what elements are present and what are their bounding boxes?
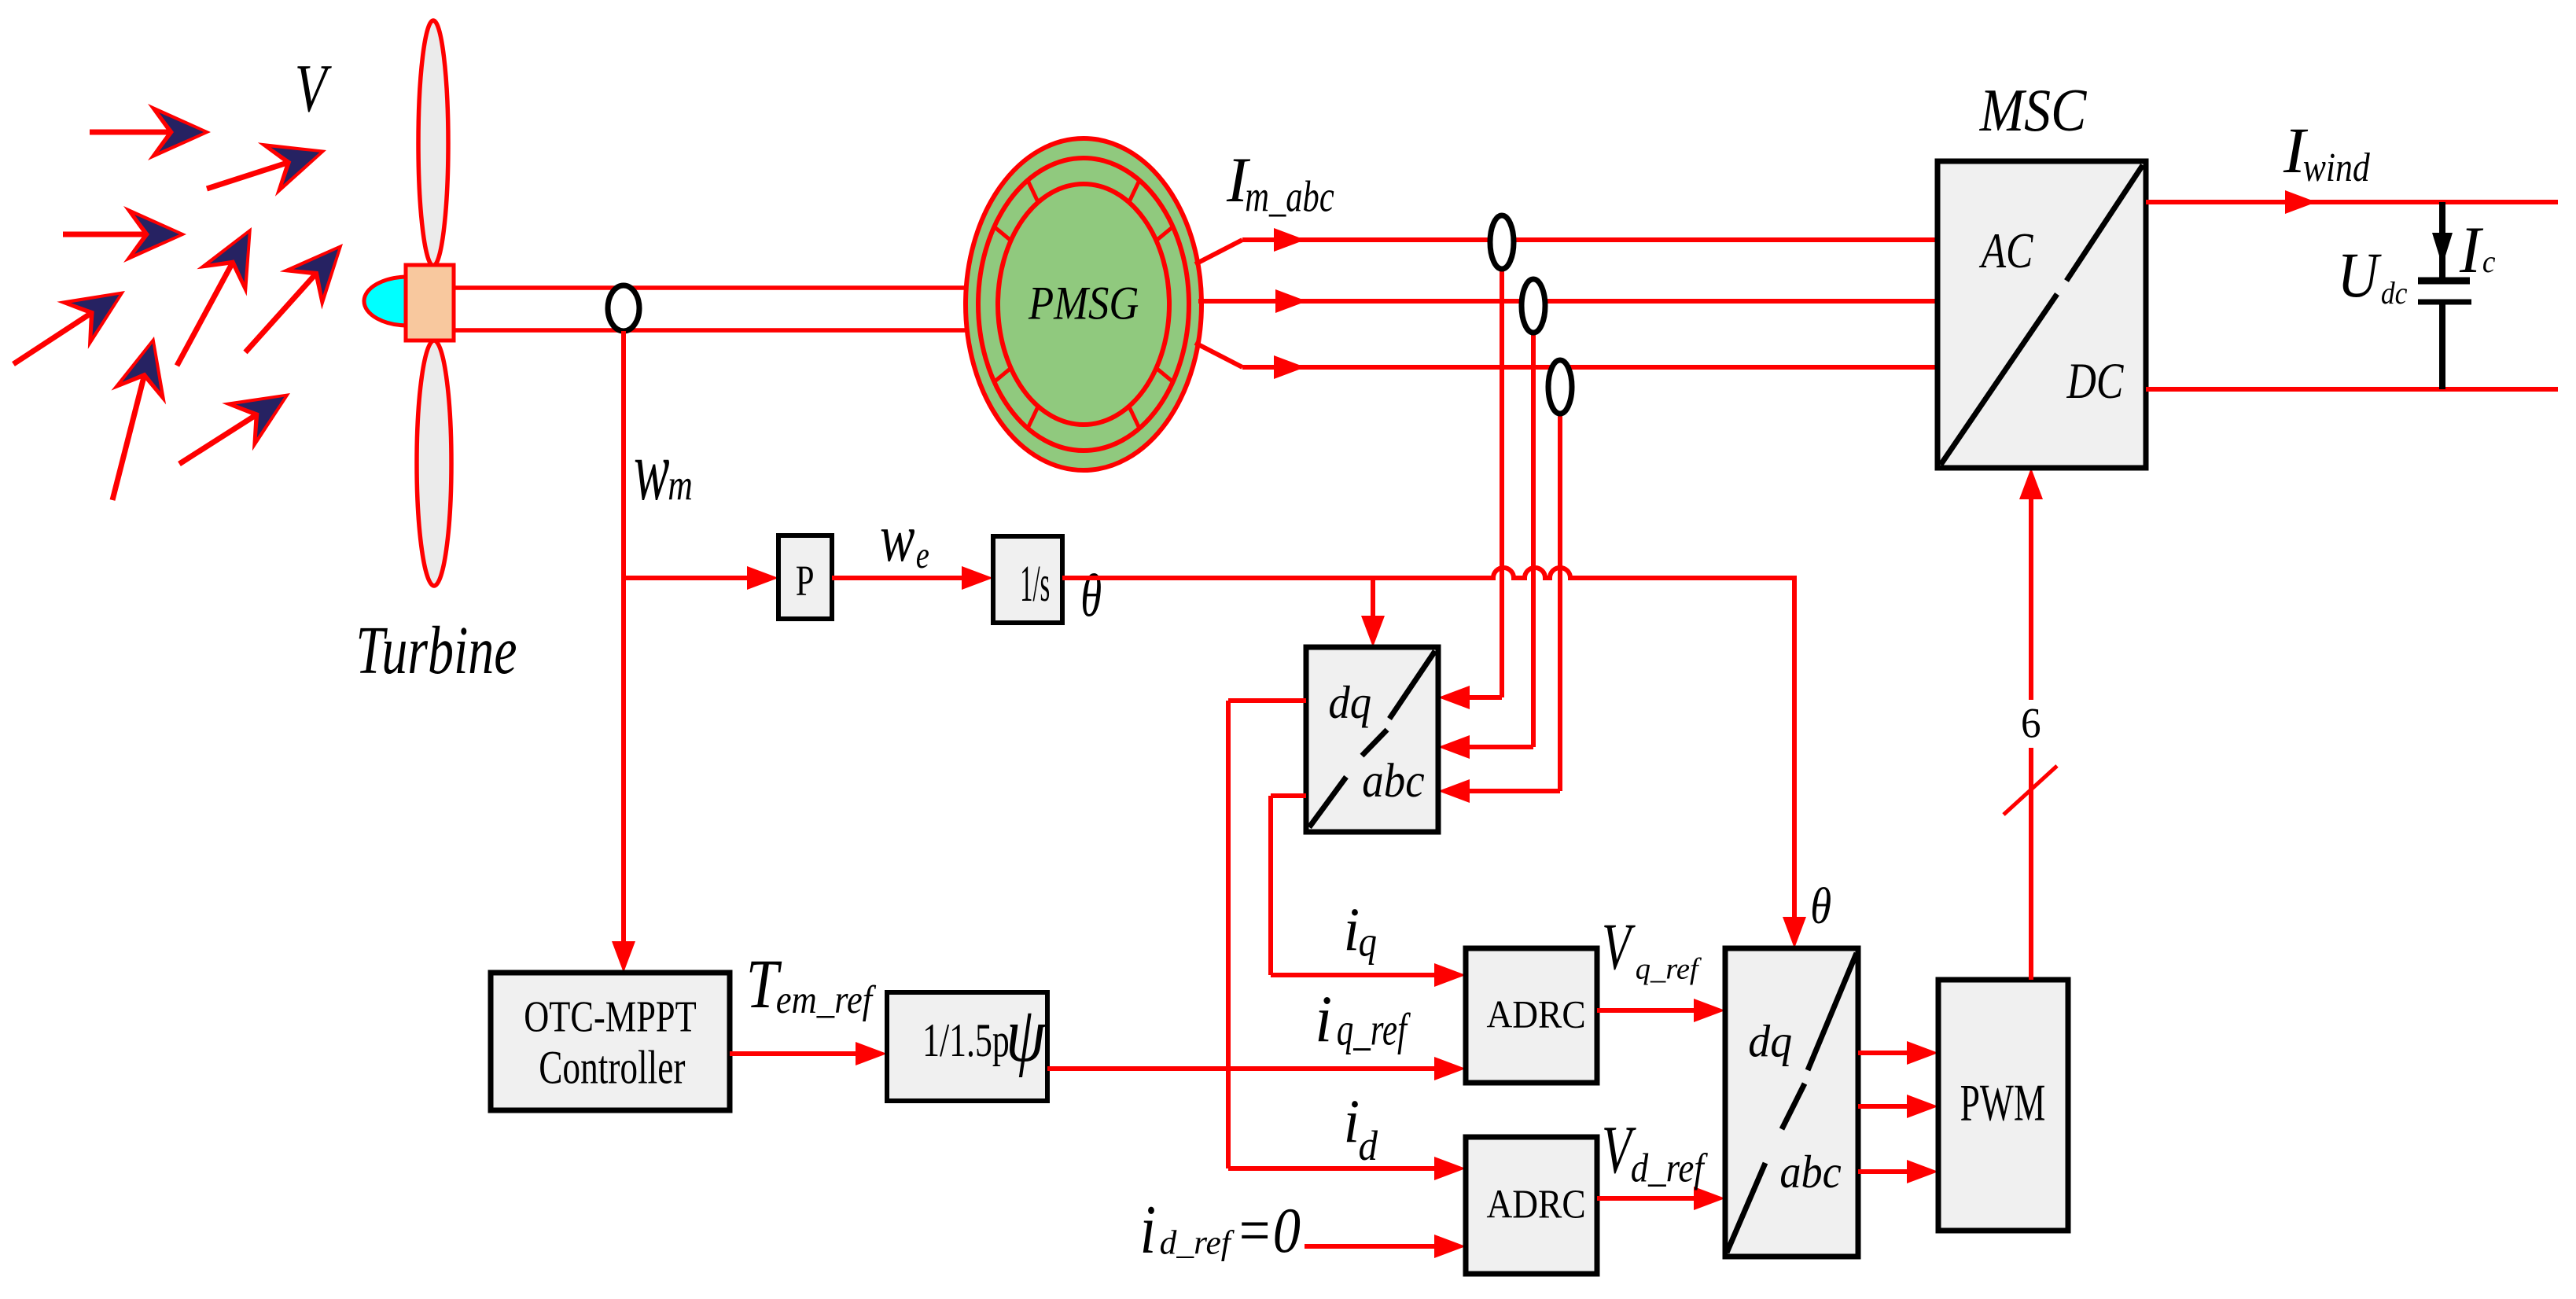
svg-text:i: i xyxy=(1315,983,1332,1056)
svg-text:dq: dq xyxy=(1328,676,1371,728)
svg-text:i: i xyxy=(1344,1087,1360,1155)
svg-text:I: I xyxy=(2459,214,2484,287)
svg-text:V: V xyxy=(295,50,333,126)
svg-text:d: d xyxy=(1359,1122,1378,1169)
svg-text:i: i xyxy=(1140,1191,1157,1268)
svg-text:d_ref: d_ref xyxy=(1160,1224,1235,1261)
svg-text:MSC: MSC xyxy=(1979,76,2088,144)
svg-text:e: e xyxy=(916,533,929,576)
svg-text:=0: =0 xyxy=(1235,1194,1301,1266)
svg-text:w: w xyxy=(880,499,915,576)
svg-text:wind: wind xyxy=(2303,145,2371,190)
svg-text:Controller: Controller xyxy=(539,1041,685,1093)
svg-text:Turbine: Turbine xyxy=(355,612,517,688)
svg-text:m_abc: m_abc xyxy=(1245,172,1334,221)
svg-text:dq: dq xyxy=(1748,1015,1792,1066)
svg-text:ADRC: ADRC xyxy=(1487,993,1586,1036)
svg-text:1/1.5p: 1/1.5p xyxy=(922,1014,1010,1067)
svg-text:i: i xyxy=(1344,895,1360,963)
svg-text:abc: abc xyxy=(1779,1146,1841,1198)
svg-text:AC: AC xyxy=(1978,223,2033,278)
svg-text:θ: θ xyxy=(1810,878,1831,935)
svg-text:dc: dc xyxy=(2381,275,2408,311)
svg-text:6: 6 xyxy=(2021,699,2041,747)
svg-text:em_ref: em_ref xyxy=(776,977,877,1021)
svg-text:w: w xyxy=(634,423,670,518)
svg-text:q_ref: q_ref xyxy=(1337,1003,1411,1054)
svg-text:m: m xyxy=(668,462,693,510)
svg-text:abc: abc xyxy=(1362,755,1424,808)
svg-text:U: U xyxy=(2338,239,2383,311)
svg-text:q_ref: q_ref xyxy=(1636,952,1702,985)
svg-text:OTC-MPPT: OTC-MPPT xyxy=(524,992,697,1041)
svg-text:d_ref: d_ref xyxy=(1631,1146,1709,1191)
svg-text:PWM: PWM xyxy=(1960,1074,2046,1132)
svg-text:ψ: ψ xyxy=(1006,991,1047,1078)
svg-text:1/s: 1/s xyxy=(1020,556,1050,613)
svg-text:q: q xyxy=(1359,918,1377,965)
svg-text:P: P xyxy=(796,557,815,605)
svg-text:θ: θ xyxy=(1080,561,1102,629)
svg-text:PMSG: PMSG xyxy=(1028,277,1139,329)
svg-text:V: V xyxy=(1602,910,1636,984)
svg-text:c: c xyxy=(2482,244,2496,279)
svg-text:ADRC: ADRC xyxy=(1487,1182,1586,1227)
svg-text:DC: DC xyxy=(2066,352,2124,409)
